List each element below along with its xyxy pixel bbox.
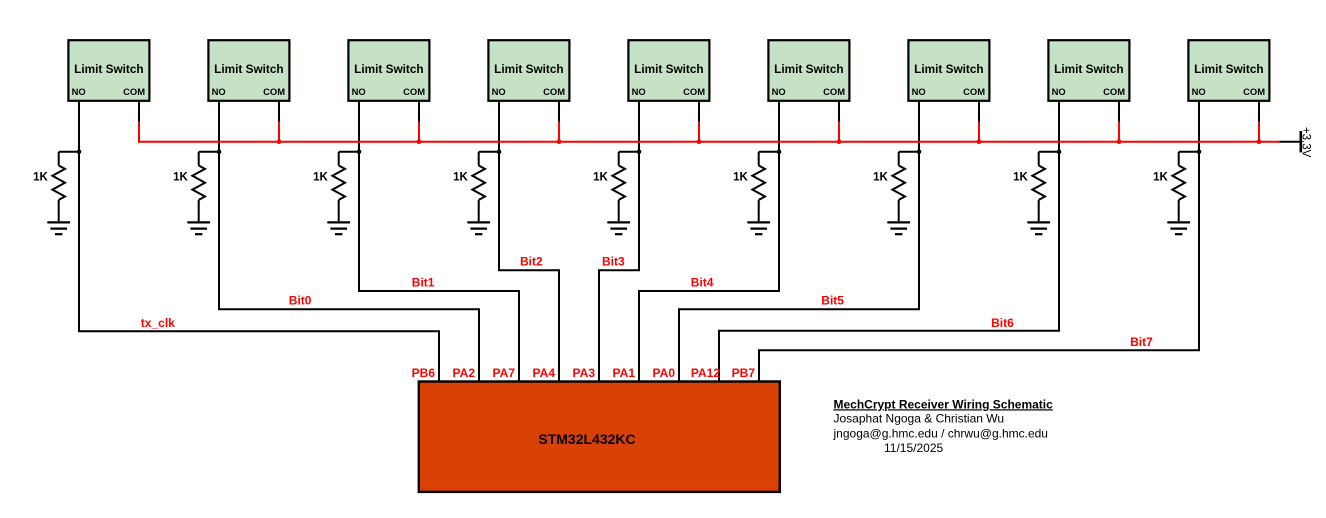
wire net tx_clk vertical to MCU pin PB6 bbox=[438, 331, 440, 382]
ground GND8 bbox=[1027, 222, 1050, 234]
junction node SW8/R8 bbox=[1057, 150, 1062, 155]
resistor R9 bbox=[1172, 152, 1199, 222]
wire net tx_clk horizontal bbox=[78, 330, 440, 332]
junction dot +3.3V rail at SW7 COM bbox=[977, 139, 982, 144]
junction node SW1/R1 bbox=[77, 150, 82, 155]
wire SW6 NO vertical to net Bit4 bbox=[778, 101, 780, 291]
junction dot +3.3V rail at SW5 COM bbox=[697, 139, 702, 144]
wire net Bit6 vertical to MCU pin PA12 bbox=[718, 331, 720, 383]
wire net Bit7 horizontal bbox=[758, 349, 1200, 351]
resistor R2 bbox=[192, 152, 219, 222]
svg-text:Limit Switch: Limit Switch bbox=[354, 62, 423, 76]
svg-text:COM: COM bbox=[543, 86, 565, 97]
wire SW4 COM pin stub bbox=[558, 101, 560, 122]
wire SW7 COM to +3.3V rail bbox=[978, 122, 980, 143]
svg-text:Limit Switch: Limit Switch bbox=[214, 62, 283, 76]
svg-text:1K: 1K bbox=[453, 172, 468, 184]
svg-text:1K: 1K bbox=[593, 172, 608, 184]
wire SW3 COM pin stub bbox=[418, 101, 420, 122]
svg-text:PA12: PA12 bbox=[691, 366, 720, 380]
wire SW4 COM to +3.3V rail bbox=[558, 122, 560, 143]
wire SW7 NO vertical to net Bit5 bbox=[918, 101, 920, 309]
svg-text:STM32L432KC: STM32L432KC bbox=[538, 431, 635, 447]
junction dot +3.3V rail at SW6 COM bbox=[837, 139, 842, 144]
MCU U1 STM32L432KC bbox=[419, 382, 780, 492]
junction dot +3.3V rail at SW8 COM bbox=[1117, 139, 1122, 144]
wire SW6 COM to +3.3V rail bbox=[838, 122, 840, 143]
wire SW5 COM to +3.3V rail bbox=[698, 122, 700, 143]
svg-text:COM: COM bbox=[403, 86, 425, 97]
wire SW6 COM pin stub bbox=[838, 101, 840, 122]
wire net Bit1 horizontal bbox=[358, 290, 520, 292]
svg-text:Bit3: Bit3 bbox=[602, 255, 625, 269]
wire SW3 NO vertical to net Bit1 bbox=[358, 101, 360, 291]
junction dot +3.3V rail at SW9 COM bbox=[1257, 139, 1262, 144]
ground GND3 bbox=[327, 222, 350, 234]
svg-text:1K: 1K bbox=[733, 172, 748, 184]
svg-text:NO: NO bbox=[772, 86, 786, 97]
svg-text:1K: 1K bbox=[313, 172, 328, 184]
svg-text:+3.3V: +3.3V bbox=[1300, 127, 1312, 158]
wire net Bit4 vertical to MCU pin PA1 bbox=[638, 291, 640, 383]
wire +3.3V rail (red) bbox=[138, 141, 1279, 143]
svg-text:Limit Switch: Limit Switch bbox=[774, 62, 843, 76]
svg-text:NO: NO bbox=[1192, 86, 1206, 97]
power symbol +3.3V bbox=[1279, 127, 1311, 158]
svg-text:1K: 1K bbox=[173, 172, 188, 184]
wire SW4 NO vertical to net Bit2 bbox=[498, 101, 500, 270]
svg-text:COM: COM bbox=[123, 86, 145, 97]
svg-text:Bit5: Bit5 bbox=[821, 294, 844, 308]
svg-text:COM: COM bbox=[1243, 86, 1265, 97]
ground GND2 bbox=[187, 222, 210, 234]
svg-text:PA7: PA7 bbox=[493, 366, 516, 380]
resistor R6 bbox=[752, 152, 779, 222]
junction node SW6/R6 bbox=[777, 150, 782, 155]
limit switch SW9 bbox=[1188, 40, 1269, 101]
wire net Bit2 vertical to MCU pin PA4 bbox=[558, 270, 560, 383]
limit switch SW4 bbox=[488, 40, 569, 101]
ground GND4 bbox=[467, 222, 490, 234]
wire SW9 COM to +3.3V rail bbox=[1258, 122, 1260, 143]
svg-text:Limit Switch: Limit Switch bbox=[634, 62, 703, 76]
wire net Bit5 horizontal bbox=[678, 308, 920, 310]
wire SW9 NO vertical to net Bit7 bbox=[1198, 101, 1200, 350]
svg-text:NO: NO bbox=[1052, 86, 1066, 97]
wire SW1 COM pin stub bbox=[138, 101, 140, 122]
wire net Bit3 horizontal bbox=[598, 269, 640, 271]
wire SW8 COM to +3.3V rail bbox=[1118, 122, 1120, 143]
svg-text:PA3: PA3 bbox=[573, 366, 596, 380]
limit switch SW7 bbox=[908, 40, 989, 101]
wire SW2 NO vertical to net Bit0 bbox=[218, 101, 220, 309]
wire net Bit1 vertical to MCU pin PA7 bbox=[518, 291, 520, 383]
junction node SW3/R3 bbox=[357, 150, 362, 155]
ground GND7 bbox=[887, 222, 910, 234]
junction dot +3.3V rail at SW4 COM bbox=[557, 139, 562, 144]
svg-text:1K: 1K bbox=[873, 172, 888, 184]
wire SW2 COM pin stub bbox=[278, 101, 280, 122]
svg-text:Bit2: Bit2 bbox=[520, 255, 543, 269]
svg-text:11/15/2025: 11/15/2025 bbox=[884, 441, 943, 455]
wire net Bit3 vertical to MCU pin PA3 bbox=[598, 270, 600, 383]
svg-text:NO: NO bbox=[352, 86, 366, 97]
wire net Bit2 horizontal bbox=[498, 269, 560, 271]
limit switch SW1 bbox=[68, 40, 149, 101]
svg-text:PA1: PA1 bbox=[613, 366, 636, 380]
svg-text:NO: NO bbox=[212, 86, 226, 97]
svg-text:Josaphat Ngoga & Christian Wu: Josaphat Ngoga & Christian Wu bbox=[834, 411, 1005, 425]
svg-text:Limit Switch: Limit Switch bbox=[494, 62, 563, 76]
svg-text:PA2: PA2 bbox=[453, 366, 476, 380]
resistor R1 bbox=[52, 152, 79, 222]
limit switch SW6 bbox=[768, 40, 849, 101]
wire net Bit7 vertical to MCU pin PB7 bbox=[758, 350, 760, 382]
svg-text:COM: COM bbox=[263, 86, 285, 97]
svg-text:PB6: PB6 bbox=[412, 366, 436, 380]
junction node SW7/R7 bbox=[917, 150, 922, 155]
wire SW5 COM pin stub bbox=[698, 101, 700, 122]
limit switch SW3 bbox=[348, 40, 429, 101]
svg-text:1K: 1K bbox=[1153, 172, 1168, 184]
svg-text:NO: NO bbox=[72, 86, 86, 97]
wire SW5 NO vertical to net Bit3 bbox=[638, 101, 640, 270]
svg-text:PA0: PA0 bbox=[653, 366, 676, 380]
svg-text:Bit6: Bit6 bbox=[991, 316, 1014, 330]
svg-text:jngoga@g.hmc.edu / chrwu@g.hmc: jngoga@g.hmc.edu / chrwu@g.hmc.edu bbox=[833, 427, 1048, 441]
svg-text:tx_clk: tx_clk bbox=[141, 316, 175, 330]
svg-text:Limit Switch: Limit Switch bbox=[74, 62, 143, 76]
wire SW1 COM to +3.3V rail bbox=[138, 122, 140, 143]
junction node SW2/R2 bbox=[217, 150, 222, 155]
resistor R3 bbox=[332, 152, 359, 222]
wire SW1 NO vertical to net tx_clk bbox=[78, 101, 80, 331]
svg-text:Limit Switch: Limit Switch bbox=[1194, 62, 1263, 76]
svg-text:NO: NO bbox=[492, 86, 506, 97]
title block bbox=[833, 397, 1054, 455]
resistor R4 bbox=[472, 152, 499, 222]
limit switch SW5 bbox=[628, 40, 709, 101]
svg-text:PB7: PB7 bbox=[732, 366, 756, 380]
wire net Bit4 horizontal bbox=[638, 290, 780, 292]
svg-text:Bit4: Bit4 bbox=[691, 276, 714, 290]
resistor R8 bbox=[1032, 152, 1059, 222]
svg-text:Bit0: Bit0 bbox=[289, 294, 312, 308]
svg-text:Limit Switch: Limit Switch bbox=[914, 62, 983, 76]
svg-text:Bit1: Bit1 bbox=[412, 276, 435, 290]
svg-text:COM: COM bbox=[1103, 86, 1125, 97]
wire SW8 NO vertical to net Bit6 bbox=[1058, 101, 1060, 331]
svg-text:COM: COM bbox=[963, 86, 985, 97]
wire SW7 COM pin stub bbox=[978, 101, 980, 122]
svg-text:NO: NO bbox=[632, 86, 646, 97]
svg-text:1K: 1K bbox=[33, 172, 48, 184]
junction node SW4/R4 bbox=[497, 150, 502, 155]
junction dot +3.3V rail at SW3 COM bbox=[417, 139, 422, 144]
svg-text:COM: COM bbox=[683, 86, 705, 97]
wire SW3 COM to +3.3V rail bbox=[418, 122, 420, 143]
junction node SW9/R9 bbox=[1197, 150, 1202, 155]
wire SW2 COM to +3.3V rail bbox=[278, 122, 280, 143]
svg-text:Bit7: Bit7 bbox=[1130, 335, 1153, 349]
wire net Bit5 vertical to MCU pin PA0 bbox=[678, 309, 680, 383]
resistor R7 bbox=[892, 152, 919, 222]
wire net Bit6 horizontal bbox=[718, 330, 1060, 332]
ground GND9 bbox=[1167, 222, 1190, 234]
wire SW8 COM pin stub bbox=[1118, 101, 1120, 122]
wire SW9 COM pin stub bbox=[1258, 101, 1260, 122]
resistor R5 bbox=[612, 152, 639, 222]
wire net Bit0 horizontal bbox=[218, 308, 480, 310]
junction dot +3.3V rail at SW2 COM bbox=[277, 139, 282, 144]
svg-text:MechCrypt Receiver Wiring Sche: MechCrypt Receiver Wiring Schematic bbox=[834, 397, 1054, 411]
svg-text:PA4: PA4 bbox=[533, 366, 556, 380]
wire net Bit0 vertical to MCU pin PA2 bbox=[478, 309, 480, 383]
svg-text:COM: COM bbox=[823, 86, 845, 97]
ground GND6 bbox=[747, 222, 770, 234]
limit switch SW8 bbox=[1048, 40, 1129, 101]
ground GND5 bbox=[607, 222, 630, 234]
ground GND1 bbox=[47, 222, 70, 234]
svg-text:Limit Switch: Limit Switch bbox=[1054, 62, 1123, 76]
limit switch SW2 bbox=[208, 40, 289, 101]
junction node SW5/R5 bbox=[637, 150, 642, 155]
svg-text:1K: 1K bbox=[1013, 172, 1028, 184]
svg-text:NO: NO bbox=[912, 86, 926, 97]
